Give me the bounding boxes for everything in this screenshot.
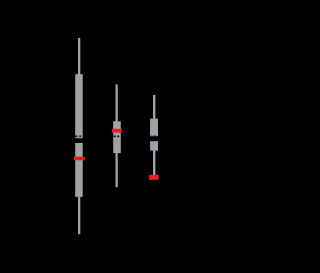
candle 1 dotted-line dot B	[79, 135, 81, 137]
candle 1 upper body	[75, 74, 83, 138]
candle 2 dotted-line dot B	[117, 136, 119, 138]
candle 1 dotted-line dot A	[75, 135, 77, 137]
candle 1 bottom wick	[78, 197, 80, 234]
candle 2 body	[113, 121, 121, 153]
candle 2 red price band	[112, 129, 122, 133]
candle 2 bottom wick	[116, 153, 118, 187]
candle 3 top wick	[153, 95, 155, 119]
candle 3 bottom wick	[153, 151, 155, 175]
candle 3 dotted-line dot A	[151, 134, 152, 137]
candle 3 dotted-line dot B	[154, 134, 156, 137]
candle 3 red price block	[149, 175, 159, 180]
candle 3 upper body	[150, 119, 158, 137]
candle 1 lower body	[75, 143, 83, 197]
candle 2 top wick	[116, 84, 118, 121]
candle 1 top wick	[78, 38, 80, 75]
candle 2 dotted-line dot A	[114, 136, 116, 138]
candle 3 lower body	[150, 141, 158, 150]
candle 1 red price band	[74, 157, 85, 161]
